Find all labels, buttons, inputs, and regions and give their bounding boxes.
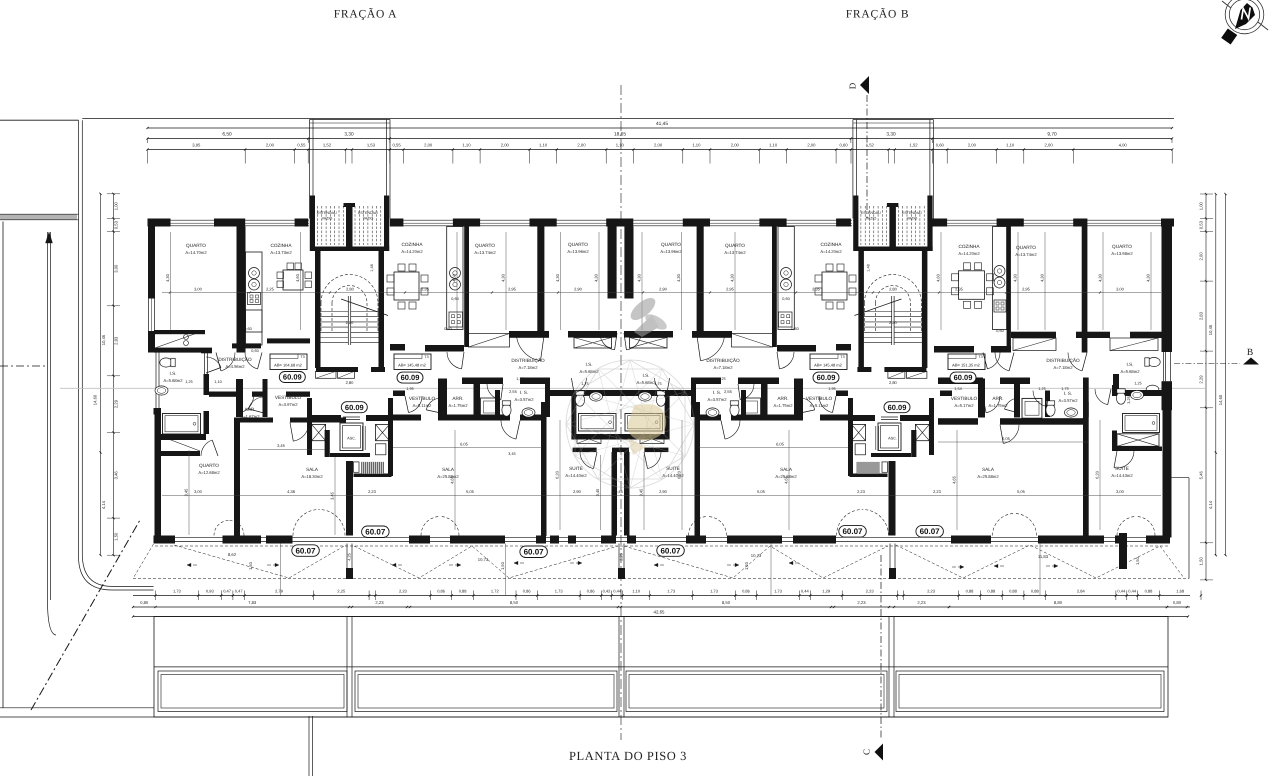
site wall with rounded corner <box>79 120 154 590</box>
svg-text:QUARTO: QUARTO <box>199 463 219 468</box>
svg-text:ESTENDAL/: ESTENDAL/ <box>317 211 337 215</box>
svg-text:60.07: 60.07 <box>842 527 863 536</box>
interior dim verticals row1 <box>170 232 172 330</box>
area box AB 104,68 T3 <box>270 354 307 370</box>
corridor bottom wall far-left <box>209 392 236 397</box>
door suite IS left-center <box>574 378 586 393</box>
svg-text:2,80: 2,80 <box>346 287 355 292</box>
elevator core side walls <box>307 398 312 455</box>
svg-text:2,23: 2,23 <box>927 588 936 593</box>
svg-text:AB= 151,35 m2: AB= 151,35 m2 <box>952 363 980 368</box>
svg-text:6,50: 6,50 <box>222 132 232 138</box>
svg-text:1,25: 1,25 <box>185 380 192 384</box>
apartment number ovals 60.07 <box>292 545 320 557</box>
svg-text:SALA: SALA <box>982 467 995 472</box>
svg-text:4,65: 4,65 <box>952 475 957 484</box>
svg-text:A=13.96m2: A=13.96m2 <box>567 249 589 254</box>
estendal divider wall <box>346 204 353 248</box>
estendal hatch right cell <box>354 206 356 245</box>
door quarto 13.96 right <box>626 333 641 350</box>
svg-text:2,23: 2,23 <box>857 600 866 605</box>
kitchen lower counter far-left <box>246 310 263 345</box>
svg-text:I.S.: I.S. <box>585 362 592 367</box>
kitchen sink circles far-left <box>249 268 260 279</box>
estendal hatch right cell <box>897 206 899 245</box>
wall quarto/axis center-left <box>608 227 617 299</box>
door sala far-left <box>293 423 309 442</box>
svg-text:0,88: 0,88 <box>987 588 996 593</box>
svg-text:3,46: 3,46 <box>114 471 119 480</box>
svg-text:4,30: 4,30 <box>730 273 735 282</box>
svg-text:1,52: 1,52 <box>909 143 918 148</box>
svg-text:T3: T3 <box>300 355 304 359</box>
stair shaft roof projection box <box>852 120 854 219</box>
svg-text:5,05: 5,05 <box>466 489 475 494</box>
roof inner panel row <box>158 671 347 712</box>
mid wall below quarto right-center <box>624 331 673 338</box>
core lower wall <box>354 474 392 478</box>
svg-text:QUARTO: QUARTO <box>568 242 588 247</box>
svg-text:3,00: 3,00 <box>1116 489 1125 494</box>
svg-text:1,53: 1,53 <box>367 143 376 148</box>
svg-text:2,55: 2,55 <box>241 417 248 421</box>
svg-text:1,48: 1,48 <box>866 264 870 271</box>
svg-text:2,25: 2,25 <box>620 553 624 560</box>
svg-text:2,23: 2,23 <box>917 600 926 605</box>
svg-text:0,60: 0,60 <box>782 297 789 301</box>
svg-text:1,50: 1,50 <box>114 532 119 541</box>
svg-text:2,00: 2,00 <box>654 143 663 148</box>
svg-text:1,50: 1,50 <box>744 561 749 570</box>
elevator vent shaft boxes <box>312 424 326 440</box>
roof band dividers <box>346 617 348 718</box>
door quarto far-left <box>221 353 235 371</box>
wall quarto/quarto center-right <box>697 219 704 334</box>
stair landing wall bottom <box>316 367 358 372</box>
terrace drainage arrows <box>187 564 199 566</box>
svg-text:1,72: 1,72 <box>491 588 500 593</box>
svg-text:VAZIO: VAZIO <box>866 217 877 221</box>
estendal divider wall <box>889 204 896 248</box>
svg-text:0,60: 0,60 <box>791 327 798 331</box>
elevator core side walls <box>929 398 934 455</box>
suite bathroom far-right <box>1112 390 1162 396</box>
svg-text:A=14.20m2: A=14.20m2 <box>958 251 980 256</box>
svg-text:4,65: 4,65 <box>450 475 455 484</box>
sala top wall right-center <box>820 415 848 421</box>
svg-text:0,44: 0,44 <box>613 588 622 593</box>
svg-text:A=3.57m2: A=3.57m2 <box>708 397 728 402</box>
kitchen fridge circles left-center <box>450 268 461 279</box>
toilet <box>502 401 511 416</box>
svg-text:4,30: 4,30 <box>165 273 170 282</box>
svg-text:2,00: 2,00 <box>424 143 433 148</box>
svg-text:9,70: 9,70 <box>1047 132 1057 138</box>
svg-text:0,88: 0,88 <box>1145 588 1154 593</box>
svg-text:ARR.: ARR. <box>244 407 255 412</box>
svg-text:60.07: 60.07 <box>660 546 681 555</box>
watermark emblem <box>566 360 694 488</box>
wall cozinha/quarto far-right <box>1007 227 1011 348</box>
svg-text:B: B <box>1247 348 1253 358</box>
bottom dimension total 42,65 <box>133 616 1188 618</box>
interior dim line row1 <box>162 292 1161 294</box>
svg-text:VAZIO: VAZIO <box>907 217 918 221</box>
svg-text:A=18.30m2: A=18.30m2 <box>301 474 323 479</box>
west wall IS window <box>155 352 157 408</box>
kitchen table left-center <box>394 272 419 300</box>
svg-text:4,65: 4,65 <box>784 475 789 484</box>
svg-text:3,30: 3,30 <box>886 132 896 138</box>
IS 3.57 walls left-center <box>495 390 500 417</box>
unit oval 60.09 vestibule right <box>884 402 910 413</box>
door quarto 13.74 right <box>701 333 725 361</box>
core landing wall <box>871 453 911 457</box>
wall quarto/cozinha far-left <box>237 227 246 353</box>
washbasin <box>639 392 652 401</box>
svg-text:0,44: 0,44 <box>1128 588 1137 593</box>
door arr left-center <box>426 398 441 410</box>
svg-text:2,23: 2,23 <box>375 600 384 605</box>
door arr right-center <box>800 398 815 410</box>
svg-text:ARR.: ARR. <box>992 396 1003 401</box>
svg-text:4,30: 4,30 <box>637 273 642 282</box>
svg-text:3,45: 3,45 <box>277 443 286 448</box>
svg-text:2,00: 2,00 <box>501 143 510 148</box>
section line D <box>866 95 868 218</box>
ramp line with arrow <box>47 232 49 600</box>
svg-text:2,80: 2,80 <box>889 380 898 385</box>
closet below quarto 13.98 far-right <box>1110 338 1158 351</box>
area box AB 145,48 T3 right <box>810 354 847 370</box>
closet below quarto 13.74 far-right <box>1013 338 1056 351</box>
svg-text:4,00: 4,00 <box>1119 143 1128 148</box>
mid wall left-center kitchen side <box>390 344 405 351</box>
svg-text:18,65: 18,65 <box>614 132 626 138</box>
bottom dimension row detailed <box>133 595 1190 597</box>
svg-text:SALA: SALA <box>442 467 455 472</box>
svg-text:COZINHA: COZINHA <box>958 244 980 249</box>
svg-text:SUITE: SUITE <box>569 466 583 471</box>
svg-text:VESTIBULO: VESTIBULO <box>275 395 302 400</box>
svg-text:AB= 145,48 m2: AB= 145,48 m2 <box>814 363 842 368</box>
svg-text:2,35: 2,35 <box>955 287 964 292</box>
suite bathroom walls left-center <box>546 390 622 396</box>
stair dashed guide arcs <box>321 275 378 304</box>
svg-text:60.09: 60.09 <box>345 403 364 412</box>
svg-text:SALA: SALA <box>306 467 319 472</box>
vestibule walls far-left <box>236 379 243 417</box>
door sala right-center <box>725 421 740 440</box>
door quarto 13.74 left <box>516 333 540 361</box>
svg-text:4,30: 4,30 <box>1013 273 1018 282</box>
top exterior wall window sill lines <box>148 219 310 221</box>
svg-text:0,60: 0,60 <box>244 327 251 331</box>
door suite far-right <box>1114 451 1134 468</box>
interior dim line sala-left 3,45 <box>248 448 325 450</box>
svg-text:6,05: 6,05 <box>776 442 785 447</box>
shower far-right <box>1022 398 1042 418</box>
stair hatch strip lower <box>857 462 880 474</box>
bathtub <box>625 414 663 432</box>
svg-text:2,23: 2,23 <box>399 588 408 593</box>
svg-text:DISTRIBUIÇÃO: DISTRIBUIÇÃO <box>511 357 545 363</box>
stair hatch strip lower <box>362 462 385 474</box>
svg-text:A=5.11m2: A=5.11m2 <box>810 403 829 408</box>
svg-text:10,46: 10,46 <box>101 334 106 345</box>
vestibule walls far-right <box>940 391 952 397</box>
svg-text:3,45: 3,45 <box>595 488 600 497</box>
svg-text:7,83: 7,83 <box>248 600 257 605</box>
washbasin <box>1131 390 1144 399</box>
svg-text:A=3.57m2: A=3.57m2 <box>515 397 535 402</box>
door vestibulo far-right <box>986 396 1000 413</box>
elevator door lines <box>343 416 360 418</box>
svg-text:6,05: 6,05 <box>460 442 469 447</box>
svg-text:A=14.40m2: A=14.40m2 <box>565 473 587 478</box>
interior dim line sala 6.05 <box>393 447 542 449</box>
bathtub <box>163 414 201 435</box>
svg-text:4,60: 4,60 <box>452 273 457 282</box>
svg-text:0,44: 0,44 <box>1117 588 1126 593</box>
svg-text:A=14.20m2: A=14.20m2 <box>401 249 423 254</box>
party wall below left core <box>346 461 353 536</box>
vestibule walls right-center <box>836 391 848 397</box>
svg-text:3,00: 3,00 <box>194 489 203 494</box>
kitchen counter left-center <box>447 227 463 330</box>
svg-text:PLANTA DO PISO 3: PLANTA DO PISO 3 <box>569 749 687 763</box>
svg-text:4,14: 4,14 <box>101 500 106 509</box>
svg-text:I. S.: I. S. <box>713 390 721 395</box>
mid wall below quarto far-left <box>154 348 212 353</box>
svg-text:1,10: 1,10 <box>462 143 471 148</box>
right dimension chain total 14,60 <box>1225 194 1227 555</box>
svg-text:A=3.97m2: A=3.97m2 <box>279 402 299 407</box>
closet below quarto 13.74 right <box>732 334 773 348</box>
svg-text:A=13.74m2: A=13.74m2 <box>724 250 746 255</box>
svg-text:A=25.88m2: A=25.88m2 <box>437 474 459 479</box>
svg-text:2,80: 2,80 <box>889 320 898 325</box>
mid wall below quarto 13.96 left <box>568 331 617 338</box>
svg-text:2,00: 2,00 <box>266 143 275 148</box>
svg-text:1,95: 1,95 <box>828 387 835 391</box>
toilet <box>1046 401 1055 416</box>
svg-text:8,62: 8,62 <box>228 552 237 557</box>
svg-text:2,95: 2,95 <box>1022 287 1031 292</box>
svg-text:0,88: 0,88 <box>966 588 975 593</box>
svg-text:VAZIO: VAZIO <box>363 217 374 221</box>
corridor wall left-center <box>462 378 503 385</box>
site boundary vertical left <box>2 222 4 709</box>
terrace balcony dividers <box>346 544 348 569</box>
door IS far-left <box>206 357 221 368</box>
svg-text:1,10: 1,10 <box>769 143 778 148</box>
bottom exterior wall piers <box>154 536 176 544</box>
svg-text:1,73: 1,73 <box>555 588 564 593</box>
stair dashed guide arcs <box>864 275 921 304</box>
svg-text:2,83: 2,83 <box>114 336 119 345</box>
suite east wall right-center <box>624 452 630 536</box>
door arr far-right <box>1005 398 1020 409</box>
svg-text:60.09: 60.09 <box>954 373 973 382</box>
svg-text:0,60: 0,60 <box>936 143 945 148</box>
balcony door dashed arcs <box>214 521 229 536</box>
svg-text:ESTENDAL/: ESTENDAL/ <box>358 211 378 215</box>
kitchen stove left-center <box>449 312 463 327</box>
svg-text:4,30: 4,30 <box>555 273 560 282</box>
washbasin <box>590 392 603 401</box>
svg-text:A=7.18m2: A=7.18m2 <box>1054 365 1074 370</box>
IS far-right walls <box>1045 391 1050 418</box>
svg-text:COZINHA: COZINHA <box>820 242 842 247</box>
svg-text:2,23: 2,23 <box>933 489 942 494</box>
svg-text:1,25: 1,25 <box>516 377 523 381</box>
svg-text:A=12.68m2: A=12.68m2 <box>198 470 220 475</box>
svg-text:0,53: 0,53 <box>114 220 119 229</box>
svg-text:3,45: 3,45 <box>508 452 515 456</box>
stair break line <box>341 299 388 316</box>
sala top wall left-center <box>393 415 421 421</box>
svg-text:0,47: 0,47 <box>223 588 232 593</box>
svg-text:0,88: 0,88 <box>1031 588 1040 593</box>
svg-text:A=5.68m2: A=5.68m2 <box>1121 369 1141 374</box>
detailed top dimension line <box>148 149 1173 151</box>
washbasin <box>706 408 719 417</box>
svg-text:2,23: 2,23 <box>368 489 377 494</box>
svg-text:5,46: 5,46 <box>1198 471 1203 480</box>
svg-text:2,83: 2,83 <box>1198 311 1203 320</box>
svg-text:1,10: 1,10 <box>616 143 625 148</box>
svg-text:1,00: 1,00 <box>114 201 119 210</box>
svg-text:DISTRIBUIÇÃO: DISTRIBUIÇÃO <box>706 357 740 363</box>
mid walls far-right <box>934 346 974 353</box>
svg-text:4,30: 4,30 <box>1146 273 1151 282</box>
svg-text:A=13.96m2: A=13.96m2 <box>660 249 682 254</box>
quarto closet far-left <box>154 330 205 334</box>
kitchen counter far-left <box>246 252 263 332</box>
stair lower flight rectangles <box>316 371 337 378</box>
door vestibulo left-center <box>409 396 423 413</box>
stair lower flight rectangles <box>906 371 927 378</box>
svg-text:0,86: 0,86 <box>523 588 532 593</box>
svg-text:A=13.74m2: A=13.74m2 <box>1015 252 1037 257</box>
svg-text:I.S.: I.S. <box>642 373 649 378</box>
door quarto 13.96 left <box>600 333 615 350</box>
svg-text:FRAÇÃO A: FRAÇÃO A <box>334 8 398 21</box>
svg-text:0,45: 0,45 <box>615 489 624 494</box>
svg-text:1,48: 1,48 <box>370 264 374 271</box>
stair landing wall bottom <box>884 367 926 372</box>
kitchen stove right-center <box>779 312 793 327</box>
stairwell floor wall <box>853 247 933 252</box>
sala east wall far-right <box>1083 402 1089 536</box>
terrace divider right <box>1119 533 1127 569</box>
sala west wall far-left <box>234 418 240 536</box>
svg-text:T3: T3 <box>424 355 428 359</box>
site dash-dot west <box>0 365 45 367</box>
svg-text:2,29: 2,29 <box>1198 375 1203 384</box>
washbasin <box>155 386 168 395</box>
door sala left-center <box>501 421 516 440</box>
bottom dimension row sums <box>133 606 1190 608</box>
svg-text:42,65: 42,65 <box>654 610 666 615</box>
toilet <box>730 401 739 416</box>
svg-text:14,60: 14,60 <box>1218 394 1223 405</box>
svg-text:2,00: 2,00 <box>731 143 740 148</box>
core lower wall <box>850 474 888 478</box>
sala east wall left-center <box>541 402 547 536</box>
svg-text:0,53: 0,53 <box>1198 220 1203 229</box>
svg-text:4,14: 4,14 <box>1208 500 1213 509</box>
elevator door lines <box>881 416 898 418</box>
elevator cabin <box>878 423 901 451</box>
roof outline below building <box>154 617 1168 718</box>
svg-text:2,95: 2,95 <box>508 287 517 292</box>
svg-text:COZINHA: COZINHA <box>270 243 292 248</box>
svg-text:4,30: 4,30 <box>594 273 599 282</box>
svg-text:C: C <box>862 749 872 755</box>
west exterior wall <box>148 219 155 299</box>
svg-text:A=3.57m2: A=3.57m2 <box>1059 398 1079 403</box>
top exterior wall piers <box>148 219 171 227</box>
svg-text:1,25: 1,25 <box>718 377 725 381</box>
IS far-left east wall <box>204 353 206 375</box>
svg-text:4,25: 4,25 <box>348 553 352 560</box>
svg-text:A=1.75m2: A=1.75m2 <box>449 403 469 408</box>
core landing wall <box>330 453 370 457</box>
svg-text:3,00: 3,00 <box>1116 287 1125 292</box>
svg-text:2,90: 2,90 <box>659 287 668 292</box>
svg-text:1,10: 1,10 <box>632 588 641 593</box>
bathtub <box>1123 414 1160 433</box>
closet below quarto 13.74 left <box>469 334 510 348</box>
wardrobe crossed suite left <box>577 435 601 444</box>
svg-text:6,20: 6,20 <box>677 470 682 479</box>
svg-text:6,05: 6,05 <box>1002 436 1011 441</box>
svg-text:1,95: 1,95 <box>406 387 413 391</box>
svg-text:3,00: 3,00 <box>114 264 119 273</box>
kitchen sink circles far-right <box>994 266 1005 277</box>
svg-text:A=13.73m2: A=13.73m2 <box>270 250 292 255</box>
svg-text:2,00: 2,00 <box>807 143 816 148</box>
svg-text:ESTENDAL/: ESTENDAL/ <box>902 211 922 215</box>
svg-text:2,80: 2,80 <box>889 287 898 292</box>
svg-text:QUARTO: QUARTO <box>186 243 206 248</box>
svg-text:4,30: 4,30 <box>1098 273 1103 282</box>
door suite IS right-center <box>655 378 667 393</box>
svg-text:1,73: 1,73 <box>667 588 676 593</box>
closet diagonal far-left <box>162 437 200 452</box>
stair treads <box>347 296 349 345</box>
svg-text:8,80: 8,80 <box>1054 600 1063 605</box>
door sala far-right <box>1003 425 1019 444</box>
svg-text:1,10: 1,10 <box>1006 143 1015 148</box>
svg-text:0,60: 0,60 <box>996 329 1003 333</box>
door cozinha far-right <box>987 353 1000 369</box>
svg-text:2,90: 2,90 <box>574 287 583 292</box>
IS 5.68 far-right fixtures <box>1145 357 1160 366</box>
svg-text:5,05: 5,05 <box>1017 489 1026 494</box>
stair flight walls <box>315 251 321 368</box>
svg-text:60.07: 60.07 <box>920 527 941 536</box>
svg-text:2,55: 2,55 <box>509 389 518 394</box>
elevator cabin <box>340 423 363 451</box>
svg-text:I.S.: I.S. <box>1126 362 1133 367</box>
svg-text:1,52: 1,52 <box>323 143 332 148</box>
svg-text:0,88: 0,88 <box>459 588 468 593</box>
svg-text:A=4.56m2: A=4.56m2 <box>226 364 246 369</box>
site hatched strip top-left <box>0 213 79 215</box>
